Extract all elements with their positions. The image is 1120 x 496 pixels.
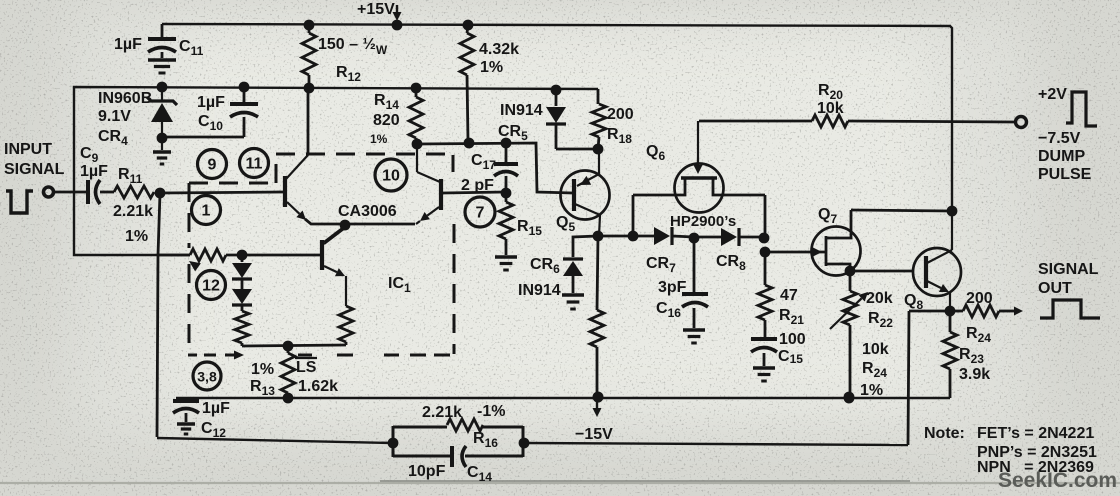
svg-text:IN914: IN914 — [500, 102, 543, 119]
svg-text:3,8: 3,8 — [197, 369, 217, 385]
svg-text:+2V: +2V — [1038, 86, 1067, 103]
svg-text:PULSE: PULSE — [1038, 166, 1092, 183]
svg-text:−15V: −15V — [575, 426, 613, 443]
svg-text:HP2900’s: HP2900’s — [670, 213, 736, 230]
svg-text:200: 200 — [966, 290, 993, 307]
svg-text:+15V: +15V — [357, 1, 395, 18]
svg-text:2 pF: 2 pF — [461, 177, 494, 194]
svg-text:1: 1 — [202, 203, 211, 220]
svg-text:10k: 10k — [862, 341, 889, 358]
svg-text:1%: 1% — [125, 228, 148, 245]
svg-text:-1%: -1% — [477, 403, 505, 420]
svg-text:1µF: 1µF — [202, 400, 230, 417]
svg-text:INPUT: INPUT — [4, 141, 52, 158]
svg-text:9.1V: 9.1V — [98, 108, 131, 125]
svg-text:2.21k: 2.21k — [113, 203, 153, 220]
svg-text:SIGNAL: SIGNAL — [1038, 261, 1099, 278]
svg-text:3pF: 3pF — [658, 279, 687, 296]
svg-text:SeekIC.com: SeekIC.com — [998, 469, 1117, 492]
svg-text:3.9k: 3.9k — [959, 366, 990, 383]
svg-text:IN914: IN914 — [518, 282, 561, 299]
svg-text:−7.5V: −7.5V — [1038, 130, 1081, 147]
svg-text:1%: 1% — [251, 361, 274, 378]
svg-text:11: 11 — [246, 156, 263, 173]
svg-text:1µF: 1µF — [114, 36, 142, 53]
svg-text:SIGNAL: SIGNAL — [4, 161, 65, 178]
svg-text:9: 9 — [208, 157, 217, 174]
svg-text:820: 820 — [373, 112, 400, 129]
svg-text:20k: 20k — [866, 290, 893, 307]
svg-text:1.62k: 1.62k — [298, 378, 338, 395]
svg-text:1%: 1% — [370, 132, 388, 146]
svg-text:1µF: 1µF — [80, 163, 108, 180]
svg-text:FET’s = 2N4221: FET’s = 2N4221 — [977, 425, 1094, 442]
svg-text:10pF: 10pF — [408, 463, 446, 480]
svg-text:OUT: OUT — [1038, 280, 1072, 297]
svg-text:47: 47 — [780, 287, 798, 304]
svg-text:4.32k: 4.32k — [479, 41, 519, 58]
svg-text:1%: 1% — [480, 59, 503, 76]
svg-text:2.21k: 2.21k — [422, 404, 462, 421]
svg-text:7: 7 — [476, 205, 485, 222]
svg-text:CA3006: CA3006 — [338, 203, 397, 220]
svg-text:Note:: Note: — [924, 425, 965, 442]
svg-text:10: 10 — [382, 168, 400, 185]
svg-text:1%: 1% — [860, 382, 883, 399]
svg-text:IN960B: IN960B — [98, 90, 152, 107]
svg-text:12: 12 — [202, 278, 220, 295]
svg-text:10k: 10k — [817, 100, 844, 117]
svg-text:LS: LS — [296, 359, 317, 376]
svg-text:DUMP: DUMP — [1038, 148, 1085, 165]
svg-text:200: 200 — [607, 106, 634, 123]
svg-text:100: 100 — [779, 331, 806, 348]
svg-text:1µF: 1µF — [197, 94, 225, 111]
